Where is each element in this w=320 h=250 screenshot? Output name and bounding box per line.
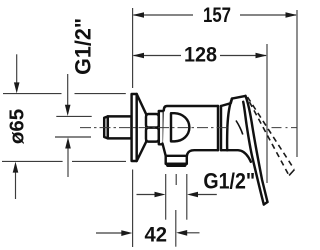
component: aerator seam [167,164,187,166]
component: handle blade outer edge [246,96,268,202]
component: handle base top edge [232,96,246,99]
node: arrow left of 128 [133,53,144,59]
component: ring between nut and body [159,111,164,144]
component: cap and handle base underside [221,150,251,162]
wire: plate top extension line right segment [75,93,126,95]
wire: spout thread left arrow line [137,194,157,196]
wire: 128 end extension line [266,44,268,183]
svg-text:42: 42 [144,223,167,247]
wire: stem bottom extension line [55,136,91,138]
node: o65 top arrow head (down) [14,82,20,93]
wire: spout centerline dash [175,174,177,185]
component: hex nut lower flat [146,128,159,142]
component: handle base fillet [236,121,243,135]
node: spout thread right arrow head [187,192,198,198]
wire: G1/2 top arrow line [67,74,69,106]
node: 42 left arrow head [121,230,132,236]
wire: o65 bottom arrow line [15,171,17,199]
component: escutcheon cone [137,94,147,161]
component: end cap top edge [221,99,232,106]
node: o65 bottom arrow head (up) [13,162,19,173]
wire: G1/2 bottom arrow line [67,148,69,178]
wire: dim line 157 left part [134,14,194,16]
wire: plate bottom extension line left segment [2,160,63,162]
svg-text:ø65: ø65 [6,109,29,144]
component: cartridge dome [171,113,189,141]
node: G1/2 bottom arrow head (up) [65,137,71,148]
wire: dim line 128 left part [134,55,182,57]
wire: spout thread right extension line [186,174,188,220]
component: supply stem G1/2 pipe [104,116,108,138]
node: arrow right of 128 [256,53,268,59]
wire: dim line 157 right part [240,14,296,16]
wire: 42 right extension line [175,210,177,247]
node: spout thread left arrow head [155,192,166,198]
svg-text:128: 128 [184,43,217,67]
component: handle blade inner edge [243,102,264,205]
wire: plate top extension line left segment [3,93,62,95]
component: spout aerator block [166,156,187,164]
wire: o65 top arrow line [16,54,18,84]
component: handle base left edge [227,99,232,151]
wire: main horizontal centerline right portion [272,127,298,129]
component: spout neck left edge [163,144,166,156]
component: dashed handle tip [289,170,295,176]
wire: stem top extension line [56,115,91,117]
component: dashed handle open position outer line [248,97,295,169]
wire: wall extension line lower segment [132,170,134,248]
wire: wall extension line upper segment [132,8,134,88]
node: 42 right arrow head [176,230,187,236]
node: arrow right of 157 [286,12,298,18]
svg-text:G1/2": G1/2" [203,169,255,193]
wire: spout thread right arrow line [197,194,217,196]
node: arrow left of 157 [133,12,144,18]
component: dashed handle open position inner line [250,102,290,176]
component: mixer body [163,106,268,205]
svg-text:G1/2": G1/2" [70,18,95,75]
wire: 42 left arrow line [96,232,122,234]
wire: main horizontal centerline left portion [80,127,227,129]
wire: dim line 128 right part [220,55,266,57]
node: G1/2 top arrow head (down) [65,105,71,116]
wire: 42 right arrow line [187,232,200,234]
component: hex nut upper flat [146,114,159,128]
wire: spout thread left extension line [165,174,167,220]
component: wall plate (escutcheon) [132,94,137,161]
component: handle tip [264,202,268,205]
wire: 157 end extension line [296,10,298,157]
component: body-cap joint lines [218,106,221,150]
wire: plate bottom extension line right segment [72,160,126,162]
svg-text:157: 157 [203,4,231,27]
